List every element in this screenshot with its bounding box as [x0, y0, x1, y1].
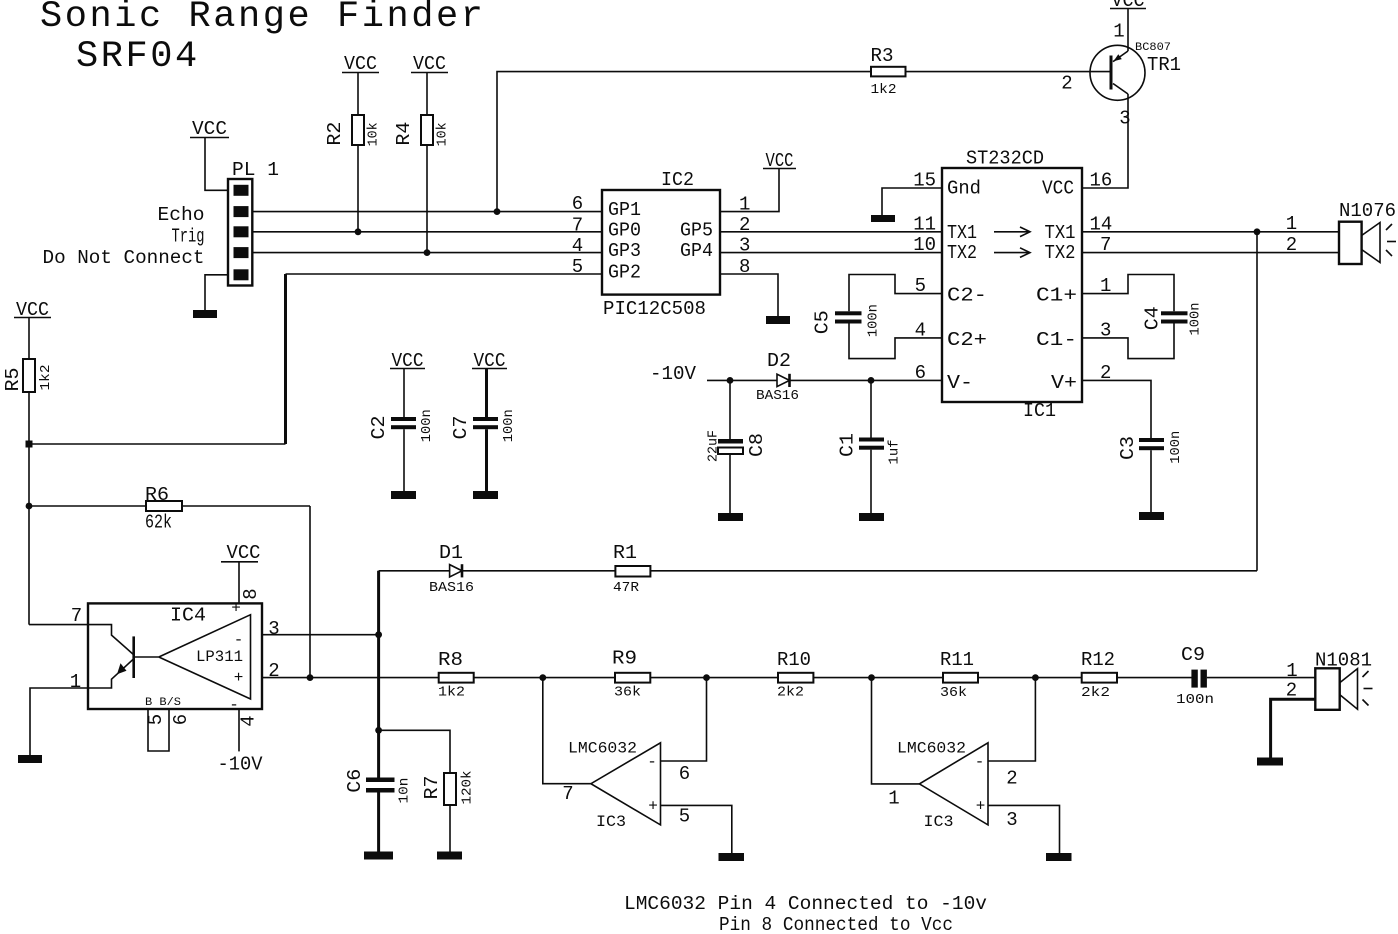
ground (R7) — [437, 852, 462, 860]
wire IC4 pin4 to -10V — [238, 709, 240, 751]
svg-text:TX1: TX1 — [947, 222, 977, 244]
svg-text:C8: C8 — [746, 433, 768, 457]
svg-text:2: 2 — [1286, 234, 1297, 256]
svg-text:1: 1 — [70, 671, 81, 693]
svg-text:1: 1 — [1113, 21, 1124, 43]
svg-text:LMC6032: LMC6032 — [897, 740, 966, 758]
svg-text:R3: R3 — [871, 45, 894, 67]
svg-text:GP0: GP0 — [608, 219, 641, 241]
svg-text:100n: 100n — [1168, 431, 1184, 464]
wire R3 to TR1 base — [906, 71, 1112, 73]
svg-text:-: - — [234, 631, 244, 649]
svg-text:IC4: IC4 — [170, 605, 206, 627]
svg-text:ST232CD: ST232CD — [966, 148, 1044, 170]
svg-text:2: 2 — [1006, 768, 1017, 790]
svg-text:R5: R5 — [2, 368, 24, 392]
capacitor C7 100n — [450, 369, 517, 492]
power VCC (TR1, clipped at top) — [1110, 0, 1146, 12]
svg-text:2: 2 — [1061, 73, 1072, 95]
connector PL1 — [228, 159, 279, 286]
transducer N1081 — [1286, 650, 1373, 710]
svg-text:C4: C4 — [1141, 306, 1163, 330]
svg-text:3: 3 — [1119, 108, 1130, 130]
ground (IC4 pin1) — [18, 755, 42, 763]
svg-text:SRF04: SRF04 — [76, 36, 200, 78]
wire VCC to R4 — [426, 73, 428, 116]
junction C6/R7 branch — [375, 727, 382, 734]
svg-text:100n: 100n — [1176, 692, 1214, 708]
svg-text:GP1: GP1 — [608, 199, 641, 221]
svg-text:C5: C5 — [811, 310, 833, 334]
junction R2/Trig — [355, 228, 362, 235]
capacitor C2 100n — [368, 369, 435, 492]
svg-text:C9: C9 — [1181, 644, 1205, 666]
wire Trig: PL1 pin3 to IC2 GP0 — [252, 231, 602, 233]
wire D1 node down through C6 (thick) — [377, 571, 380, 778]
svg-text:7: 7 — [572, 214, 583, 236]
svg-text:Pin 8 Connected to Vcc: Pin 8 Connected to Vcc — [719, 914, 953, 934]
svg-text:C2+: C2+ — [947, 329, 987, 351]
svg-text:D1: D1 — [439, 542, 463, 564]
wire IC3a -in to node B — [661, 678, 707, 761]
wire GP2 down (thick) — [284, 274, 287, 444]
svg-text:10n: 10n — [397, 778, 413, 804]
junction C8/-10V — [727, 377, 734, 384]
svg-text:5: 5 — [679, 806, 690, 828]
capacitor C5 100n — [811, 275, 942, 359]
svg-text:Echo: Echo — [158, 204, 205, 226]
op-amp IC3a LMC6032 — [568, 740, 661, 832]
ground (IC1 pin15) — [871, 215, 895, 222]
ground (C6) — [364, 852, 393, 860]
svg-text:4: 4 — [572, 235, 583, 257]
svg-text:R9: R9 — [612, 647, 637, 669]
resistor R11 36k — [940, 649, 978, 701]
wire VCC to PL1 pin1 — [205, 138, 228, 191]
resistor R10 2k2 — [777, 649, 813, 701]
svg-text:+: + — [976, 798, 986, 816]
svg-text:IC1: IC1 — [1023, 400, 1056, 422]
junction node C (R10/R11/opamp2 out) — [868, 674, 875, 681]
svg-text:2k2: 2k2 — [777, 685, 804, 701]
wire R7 to ground — [449, 805, 451, 852]
svg-text:C6: C6 — [344, 769, 366, 793]
wire IC4 pin3 to D1 node — [262, 634, 379, 636]
wire N1081 pin2 to ground (thick) — [1271, 699, 1316, 757]
svg-text:10k: 10k — [435, 122, 451, 146]
svg-text:6: 6 — [572, 193, 583, 215]
wire IC4 pin7 to R5/R6 node — [29, 624, 88, 626]
svg-text:100n: 100n — [1188, 303, 1204, 336]
wire D1 to R1 — [462, 570, 615, 572]
svg-text:C1: C1 — [836, 433, 858, 457]
arrow TX2 internal — [994, 248, 1030, 258]
wire junction down to R1 row — [1256, 232, 1258, 571]
svg-text:PL 1: PL 1 — [232, 159, 279, 181]
svg-text:C1+: C1+ — [1036, 285, 1077, 307]
junction node B (R9/R10/opamp -in) — [703, 674, 710, 681]
resistor R6 62k — [29, 484, 310, 534]
arrow TX1 internal — [994, 227, 1030, 237]
junction Echo/vertical — [494, 208, 501, 215]
ground (N1081) — [1257, 758, 1283, 766]
wire across to R5 node — [29, 443, 286, 445]
svg-text:C3: C3 — [1117, 436, 1139, 460]
svg-text:D2: D2 — [767, 350, 791, 372]
svg-text:C2-: C2- — [947, 285, 987, 307]
transistor TR1 BC807 — [1061, 21, 1181, 130]
svg-text:2: 2 — [268, 660, 279, 682]
svg-text:GP4: GP4 — [680, 240, 713, 262]
diode D2 BAS16 — [756, 350, 799, 404]
wire Echo node up to R3 row — [497, 72, 871, 212]
svg-text:BC807: BC807 — [1135, 42, 1171, 54]
wire Echo: PL1 pin2 to IC2 GP1 — [252, 211, 602, 213]
wire R4 to DNC line — [426, 145, 428, 253]
diode D1 BAS16 — [429, 542, 474, 596]
IC1 ST232CD — [942, 148, 1082, 423]
resistor R2 10k — [324, 115, 382, 146]
svg-text:2k2: 2k2 — [1081, 685, 1110, 701]
wire IC2 GP5 to IC1 TX1 — [720, 231, 942, 233]
wire PL1 pin5 to ground — [205, 275, 228, 310]
svg-text:C1-: C1- — [1036, 329, 1077, 351]
wire IC3a +in to ground — [661, 805, 732, 853]
svg-text:1k2: 1k2 — [38, 365, 54, 391]
junction node A (R8/R9/opamp out) — [539, 674, 546, 681]
resistor R1 47R — [613, 542, 650, 596]
svg-text:R2: R2 — [324, 122, 346, 146]
svg-text:TX1: TX1 — [1045, 222, 1076, 244]
wire IC3b -in to node D — [988, 678, 1035, 761]
power VCC (IC4 pin8) — [221, 542, 261, 564]
ground (IC3a +in) — [719, 853, 745, 861]
ground (IC3b +in) — [1046, 853, 1072, 861]
wire VCC to TR1 emitter — [1127, 9, 1129, 52]
svg-text:-: - — [647, 753, 657, 771]
svg-text:1k2: 1k2 — [438, 685, 465, 701]
svg-text:C7: C7 — [450, 416, 472, 440]
svg-text:-10V: -10V — [218, 754, 264, 776]
ground (C7) — [473, 491, 498, 499]
svg-text:R1: R1 — [613, 542, 637, 564]
svg-text:GP5: GP5 — [680, 219, 713, 241]
svg-text:TX2: TX2 — [1045, 242, 1076, 264]
svg-text:7: 7 — [71, 605, 82, 627]
resistor R9 36k — [612, 647, 650, 700]
resistor R8 1k2 — [438, 649, 474, 701]
svg-text:BAS16: BAS16 — [429, 580, 474, 596]
resistor R12 2k2 — [1081, 649, 1117, 701]
svg-text:62k: 62k — [145, 512, 172, 534]
capacitor C8 22uF electrolytic — [706, 380, 768, 513]
IC4 pins 5,6 strap — [145, 709, 192, 751]
wire IC1 TX1 pin14 to N1076 pin1 — [1082, 231, 1339, 233]
resistor R7 120k — [421, 771, 476, 806]
wire IC1 pin15 Gnd to ground — [882, 188, 942, 215]
wire TR1 collector to IC1 VCC pin16 — [1082, 94, 1128, 188]
wire IC3b output to node C — [872, 678, 920, 784]
svg-text:PIC12C508: PIC12C508 — [603, 298, 706, 320]
svg-text:11: 11 — [913, 213, 936, 235]
svg-text:GP3: GP3 — [608, 240, 641, 262]
power VCC (R5) — [14, 299, 51, 321]
wire IC2 GP2 left — [286, 273, 603, 275]
svg-text:R10: R10 — [777, 649, 811, 671]
svg-text:-: - — [975, 753, 985, 771]
wire D1/R1 row from C6 node — [379, 570, 450, 572]
svg-text:R7: R7 — [421, 776, 443, 800]
wire IC1 TX2 pin7 to N1076 pin2 — [1082, 252, 1339, 254]
svg-text:IC2: IC2 — [661, 169, 694, 191]
junction R5/GP2 — [26, 441, 33, 448]
svg-text:36k: 36k — [940, 685, 967, 701]
capacitor C6 10n — [344, 769, 413, 852]
wire IC4 pin1 to ground — [30, 688, 88, 755]
svg-text:LMC6032: LMC6032 — [568, 740, 637, 758]
wire R5 down to IC4 pin7 row — [28, 392, 30, 625]
svg-text:1: 1 — [888, 788, 899, 810]
wire VCC to R2 — [357, 73, 359, 116]
svg-text:GP2: GP2 — [608, 262, 641, 284]
power VCC (R2) — [342, 53, 379, 75]
svg-text:6: 6 — [170, 714, 192, 725]
power VCC (C2) — [390, 350, 425, 372]
svg-text:V+: V+ — [1051, 372, 1077, 394]
svg-text:1k2: 1k2 — [871, 82, 897, 98]
svg-text:TX2: TX2 — [947, 242, 977, 264]
capacitor C9 100n — [1176, 644, 1214, 708]
svg-text:R8: R8 — [438, 649, 463, 671]
svg-text:Do Not Connect: Do Not Connect — [43, 247, 205, 269]
svg-text:+: + — [231, 600, 241, 618]
wire IC2 pin1 to VCC — [720, 169, 779, 212]
svg-text:7: 7 — [562, 783, 573, 805]
capacitor C1 1uf — [836, 380, 902, 513]
wire R2 to Trig line — [357, 145, 359, 232]
svg-text:10k: 10k — [366, 122, 382, 146]
wire IC3a output to node A — [543, 678, 591, 784]
ground (C3) — [1139, 512, 1164, 520]
power VCC (IC2 pin1) — [763, 150, 796, 172]
ground (C8) — [718, 513, 743, 521]
svg-text:LMC6032 Pin 4 Connected to -10: LMC6032 Pin 4 Connected to -10v — [624, 893, 987, 915]
svg-text:Gnd: Gnd — [947, 178, 981, 200]
svg-text:Sonic Range Finder: Sonic Range Finder — [40, 0, 486, 38]
wire -10V rail to IC1 V- — [707, 379, 942, 381]
IC2 PIC12C508 — [602, 169, 720, 320]
comparator IC4 LP311 — [88, 600, 262, 715]
op-amp IC3b LMC6032 — [897, 740, 988, 832]
power VCC (C7) — [472, 350, 507, 372]
svg-text:R11: R11 — [940, 649, 974, 671]
wire R1 to N1076 junction vertical — [650, 570, 1257, 572]
wire R6 right end down to comparator output row — [309, 506, 311, 678]
wire IC3b +in to ground — [988, 805, 1060, 853]
wire branch to R7 — [379, 730, 450, 773]
wire VCC to IC4 pin8 — [238, 562, 240, 604]
svg-text:R4: R4 — [393, 122, 415, 146]
junction R4/DNC — [424, 249, 431, 256]
svg-text:3: 3 — [268, 618, 279, 640]
svg-text:TR1: TR1 — [1147, 54, 1181, 76]
svg-text:6: 6 — [679, 763, 690, 785]
resistor R4 10k — [393, 115, 451, 146]
svg-text:36k: 36k — [614, 685, 641, 701]
junction R5/R6 — [26, 503, 33, 510]
svg-text:LP311: LP311 — [196, 648, 243, 666]
junction N1076 line — [1254, 228, 1261, 235]
power VCC (R4) — [411, 53, 448, 75]
svg-text:IC3: IC3 — [924, 813, 954, 831]
ground (IC2 pin8) — [766, 316, 790, 324]
svg-text:10: 10 — [913, 234, 936, 256]
power VCC (PL1) — [190, 118, 229, 140]
wire IC2 GP4 to IC1 TX2 — [720, 252, 942, 254]
svg-text:8: 8 — [240, 588, 262, 599]
svg-text:47R: 47R — [613, 580, 640, 596]
svg-text:BAS16: BAS16 — [756, 388, 799, 404]
svg-text:IC3: IC3 — [596, 813, 626, 831]
svg-text:16: 16 — [1090, 170, 1113, 192]
svg-text:+: + — [234, 669, 244, 687]
svg-text:+: + — [648, 798, 658, 816]
svg-text:B B/S: B B/S — [145, 697, 181, 709]
svg-text:VCC: VCC — [1042, 178, 1074, 200]
svg-text:5: 5 — [145, 714, 167, 725]
svg-text:100n: 100n — [419, 409, 435, 442]
wire C9 to N1081 pin1 — [1207, 677, 1315, 679]
junction pin3/D1 vertical — [375, 631, 382, 638]
svg-text:Trig: Trig — [172, 226, 205, 248]
svg-text:C2: C2 — [368, 416, 390, 440]
svg-text:1: 1 — [1286, 213, 1297, 235]
svg-text:1uf: 1uf — [887, 440, 903, 465]
wire IC2 pin8 to ground — [720, 274, 778, 316]
svg-text:N1076: N1076 — [1339, 200, 1396, 222]
wire DNC: PL1 pin4 to IC2 GP3 — [252, 252, 602, 254]
resistor R3 1k2 — [871, 45, 906, 98]
svg-text:-: - — [229, 696, 239, 714]
ground (PL1) — [193, 310, 217, 318]
svg-text:100n: 100n — [501, 409, 517, 442]
svg-text:V-: V- — [947, 372, 973, 394]
ground (C2) — [391, 491, 416, 499]
capacitor C3 100n — [1082, 380, 1184, 512]
svg-text:22uF: 22uF — [706, 430, 722, 462]
svg-text:3: 3 — [1006, 809, 1017, 831]
svg-text:VCC: VCC — [227, 542, 261, 564]
capacitor C4 100n — [1082, 275, 1204, 359]
transducer N1076 — [1286, 200, 1396, 264]
ground (C1) — [859, 513, 884, 521]
svg-text:4: 4 — [238, 715, 260, 726]
resistor R5 1k2 — [2, 359, 54, 392]
junction R6 drop on signal row — [307, 674, 314, 681]
junction node D (R11/R12/opamp2 -in) — [1032, 674, 1039, 681]
svg-text:R12: R12 — [1081, 649, 1115, 671]
junction C1/-10V — [868, 377, 875, 384]
svg-text:-10V: -10V — [650, 363, 697, 385]
svg-text:120k: 120k — [460, 771, 476, 805]
wire signal row IC4 pin2 to C9 — [262, 677, 1192, 679]
svg-text:100n: 100n — [866, 304, 882, 337]
wire VCC to R5 — [28, 318, 30, 360]
